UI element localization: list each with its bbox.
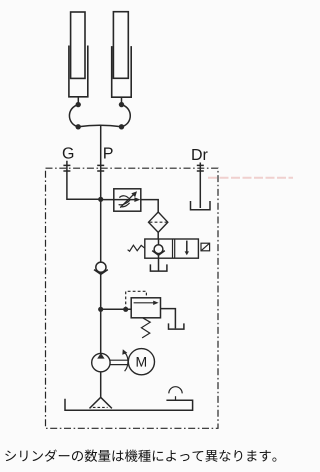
cylinder 2 barrel xyxy=(112,46,132,97)
relief valve spring xyxy=(141,318,150,338)
flow control valve throttle arcs xyxy=(119,196,131,205)
solenoid valve divider xyxy=(173,239,175,258)
check valve on P line xyxy=(96,262,106,272)
cylinder 2 port stub xyxy=(121,97,123,103)
pump circle xyxy=(92,353,110,371)
hose left xyxy=(69,105,78,127)
solenoid valve body xyxy=(145,239,199,258)
solenoid valve arrow position xyxy=(186,241,188,253)
hose junction dot right xyxy=(119,124,124,129)
label Dr xyxy=(192,149,207,160)
pump triangle xyxy=(97,353,104,359)
solenoid coil xyxy=(201,243,210,251)
wire filter to valve xyxy=(157,232,159,239)
junction node G-P xyxy=(98,197,103,202)
hose right xyxy=(122,105,131,127)
wire G vertical xyxy=(67,161,101,200)
filter element dashed xyxy=(150,221,167,223)
solenoid valve check position xyxy=(158,239,160,245)
Dr tank xyxy=(191,201,211,210)
rotation arrow xyxy=(125,353,128,371)
flow control valve flow line xyxy=(101,199,137,201)
relief valve body xyxy=(131,298,160,318)
relief outlet wire xyxy=(161,309,176,329)
solenoid valve spring xyxy=(128,245,145,251)
suction wire xyxy=(100,372,102,398)
relief tank xyxy=(169,323,184,329)
wire flow control to filter xyxy=(141,200,158,212)
label G xyxy=(63,147,73,158)
breather xyxy=(169,387,182,394)
valve drain wire xyxy=(158,258,160,271)
scan artifact pink line xyxy=(208,177,293,179)
caption xyxy=(5,449,276,461)
filter body xyxy=(149,212,168,232)
hose link xyxy=(78,125,121,127)
shaft xyxy=(110,360,128,364)
wire Dr vertical xyxy=(199,163,201,209)
port dot cylinder 2 xyxy=(119,102,124,107)
cylinder 2 rod xyxy=(113,12,128,79)
port dot cylinder 1 xyxy=(76,102,81,107)
cylinder 1 port stub xyxy=(77,97,79,104)
boundary tick Dr xyxy=(197,165,204,171)
label P xyxy=(104,147,113,158)
flow control valve body xyxy=(114,189,141,211)
enclosure chain-line box xyxy=(46,168,219,428)
strainer xyxy=(90,397,112,408)
cylinder 1 rod xyxy=(71,12,85,78)
flow control valve flow arrowhead xyxy=(134,197,140,202)
junction node relief pilot xyxy=(123,307,128,312)
hose junction dot left xyxy=(76,124,81,129)
motor circle xyxy=(128,349,154,375)
relief valve arrow xyxy=(134,302,155,304)
junction node relief P xyxy=(98,307,103,312)
wire P main vertical xyxy=(100,125,102,353)
flow control valve adjust arrow xyxy=(120,195,133,208)
relief pilot dashed wire xyxy=(126,291,147,309)
motor label M xyxy=(137,357,146,367)
boundary tick G xyxy=(63,165,70,171)
boundary tick P xyxy=(97,165,104,171)
cylinder 1 barrel xyxy=(69,46,88,97)
reservoir tank xyxy=(65,399,193,410)
valve drain tank xyxy=(150,264,167,271)
relief branch wire xyxy=(101,308,132,310)
